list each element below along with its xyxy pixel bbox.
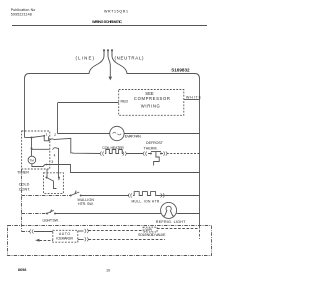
connector right of mullion heater bbox=[161, 193, 165, 197]
icemaker open lead arrow bbox=[35, 239, 39, 242]
svg-text:WIRING: WIRING bbox=[141, 103, 160, 108]
wire motor to contact 3 bbox=[32, 164, 54, 167]
wire compressor feed vertical bbox=[57, 103, 59, 134]
wire evap fan row right bbox=[124, 133, 199, 135]
wire light switch row bbox=[22, 213, 47, 215]
svg-text:THERM.: THERM. bbox=[144, 147, 158, 151]
svg-text:Publication No: Publication No bbox=[11, 8, 36, 12]
wire icemaker right top bbox=[78, 230, 84, 232]
svg-text:MULL. ION HTR.: MULL. ION HTR. bbox=[132, 199, 161, 203]
svg-text:COLD: COLD bbox=[19, 182, 30, 186]
wire timer common down to motor bbox=[31, 138, 33, 157]
neutral cord right wire and right rail bbox=[112, 57, 200, 226]
compressor box (SEE COMPRESSOR WIRING) bbox=[119, 90, 184, 116]
svg-text:COMPRESSOR: COMPRESSOR bbox=[134, 96, 170, 101]
wire timer to cold control left bbox=[46, 169, 48, 178]
timer contact 4 bbox=[53, 148, 57, 150]
accessory rail left (dash-dot) bbox=[21, 169, 23, 232]
defrost coil heater element bbox=[105, 150, 123, 154]
wire contact3 to neutral bbox=[54, 165, 200, 173]
wire evap fan row left bbox=[58, 133, 110, 135]
svg-text:1: 1 bbox=[46, 133, 48, 137]
wire icemaker right bottom bbox=[78, 239, 84, 241]
svg-text:REFRIG. LIGHT: REFRIG. LIGHT bbox=[156, 220, 186, 224]
connector icemaker right top bbox=[85, 229, 89, 233]
wire heater to thermostat bbox=[127, 153, 144, 155]
node timer motor tap bbox=[31, 148, 33, 150]
svg-text:COIL HEATER: COIL HEATER bbox=[102, 146, 124, 150]
light switch bbox=[46, 213, 48, 215]
connector icemaker left bbox=[30, 229, 34, 233]
svg-text:8698: 8698 bbox=[18, 268, 26, 272]
svg-text:WHITE: WHITE bbox=[186, 96, 202, 100]
wire icemaker feed bbox=[22, 231, 30, 233]
solenoid valve box (WP) bbox=[143, 227, 157, 232]
svg-text:ICEMAKER: ICEMAKER bbox=[56, 236, 73, 240]
wire mullion switch row bbox=[22, 195, 71, 197]
cold control box bbox=[44, 173, 64, 194]
header publication text bbox=[11, 8, 128, 24]
wire compressor row bbox=[58, 102, 119, 104]
svg-text:TM: TM bbox=[30, 158, 35, 162]
svg-text:LIGHT SW.: LIGHT SW. bbox=[43, 218, 59, 222]
line cord left wire and left rail bbox=[25, 57, 105, 138]
wire compressor to neutral bbox=[184, 99, 200, 101]
svg-text:(WP): (WP) bbox=[145, 228, 153, 232]
timer contact 2 bbox=[44, 140, 49, 142]
connector left of coil heater bbox=[100, 152, 104, 156]
timer motor TM bbox=[28, 156, 36, 164]
footer text bbox=[18, 268, 110, 272]
auto icemaker box bbox=[53, 230, 78, 242]
svg-text:DEFROST: DEFROST bbox=[146, 141, 164, 145]
svg-text:CONT.: CONT. bbox=[19, 187, 30, 191]
evap fan motor bbox=[110, 126, 124, 140]
svg-text:TIMER: TIMER bbox=[17, 170, 29, 174]
defrost thermostat bbox=[150, 153, 152, 155]
accessory boundary box bbox=[8, 226, 212, 256]
svg-text:2: 2 bbox=[54, 133, 56, 137]
wire contact2 to defrost heater row bbox=[54, 138, 100, 153]
wire light switch to lamp bbox=[55, 213, 161, 215]
wire lamp to neutral bbox=[177, 213, 200, 215]
svg-text:(NEUTRAL): (NEUTRAL) bbox=[115, 56, 145, 61]
defrost timer box bbox=[22, 131, 50, 169]
svg-text:4: 4 bbox=[54, 153, 56, 157]
svg-text:HTR. SW.: HTR. SW. bbox=[78, 202, 94, 206]
wire thermostat to neutral bbox=[167, 153, 200, 155]
connector left of mullion heater bbox=[128, 193, 132, 197]
svg-text:5995221148: 5995221148 bbox=[11, 13, 32, 17]
svg-text:S169832: S169832 bbox=[171, 68, 190, 73]
svg-text:SOLENOID VALVE: SOLENOID VALVE bbox=[138, 233, 166, 237]
refrigerator lamp bbox=[161, 202, 177, 218]
svg-text:WIRING SCHEMATIC: WIRING SCHEMATIC bbox=[92, 20, 122, 24]
svg-text:EVAP. FAN: EVAP. FAN bbox=[125, 135, 141, 139]
svg-text:RED: RED bbox=[121, 99, 129, 103]
neutral rail lower dashed bbox=[199, 226, 201, 240]
connector icemaker right bottom bbox=[85, 237, 89, 241]
connector right of coil heater bbox=[123, 152, 127, 156]
svg-text:10: 10 bbox=[106, 268, 110, 272]
mullion heater element bbox=[133, 192, 157, 196]
timer contact 1 bbox=[48, 136, 50, 140]
svg-text:3: 3 bbox=[51, 160, 53, 164]
cold control switch bbox=[47, 178, 57, 189]
svg-text:WRT15QR1: WRT15QR1 bbox=[104, 9, 128, 13]
label COLD CONT. bbox=[19, 182, 30, 191]
ground arrow bbox=[109, 77, 113, 81]
wire mullion switch to heater bbox=[81, 195, 129, 197]
node timer common bbox=[25, 137, 32, 139]
ground wire bbox=[108, 57, 110, 77]
connector right of defrost thermostat bbox=[163, 152, 167, 156]
svg-text:(LINE): (LINE) bbox=[76, 56, 95, 61]
power plug prongs bbox=[104, 50, 112, 56]
wire to contact 4 bbox=[32, 148, 50, 150]
header rule bbox=[12, 25, 207, 27]
wire mullion heater to neutral bbox=[157, 195, 200, 197]
mullion heater switch bbox=[70, 195, 72, 197]
wire solenoid to neutral bbox=[157, 228, 199, 230]
connector left of defrost thermostat bbox=[143, 152, 147, 156]
label DEFROST THERM. bbox=[144, 141, 164, 151]
wire contact4 to cold control bbox=[57, 148, 59, 177]
timer switch arm bbox=[32, 136, 45, 138]
